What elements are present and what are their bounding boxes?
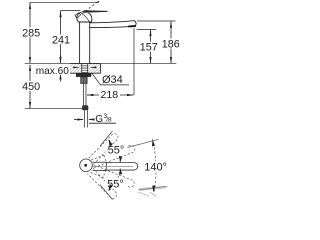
radial stop line lower (55deg direction)	[100, 185, 113, 200]
svg-text:285: 285	[22, 27, 40, 39]
dashed spout rotated down ~21deg	[90, 165, 135, 189]
dimension max.60	[59, 55, 61, 82]
svg-text:186: 186	[162, 39, 180, 51]
spout midline seam	[93, 165, 134, 167]
label 55 lower	[105, 178, 127, 189]
55 lower: arrow onto pill	[119, 168, 122, 174]
faint lower diagonals	[138, 192, 149, 196]
dimension 218	[86, 28, 134, 96]
dashed spout rotated up ~21deg	[91, 144, 136, 168]
dimension 241	[59, 11, 61, 64]
pivot circle	[80, 159, 93, 172]
svg-text:Ø34: Ø34	[102, 74, 123, 86]
arrowheads of angle dims	[108, 139, 155, 192]
spout outlet nub	[129, 25, 135, 27]
55 upper: arrow onto 46deg stop	[108, 139, 112, 146]
dome (cartridge cap)	[77, 12, 92, 22]
svg-text:/8: /8	[106, 116, 112, 123]
wire: extension line at lever top (241 ref)	[61, 10, 81, 12]
wire: hose-end reference line (450 ref)	[25, 108, 82, 110]
dimension G3/8	[74, 118, 116, 123]
hole diameter arrows inside counter	[73, 67, 96, 69]
label 55 upper	[106, 144, 128, 155]
dashed raised-lever indicator	[82, 2, 96, 14]
55 upper: arrow onto pill	[119, 156, 122, 162]
dimension 157	[137, 29, 157, 63]
140deg witness line lower (blurred band)	[139, 187, 167, 190]
lever tail flap	[75, 13, 81, 18]
svg-text:241: 241	[52, 34, 70, 46]
55deg arc lower	[109, 168, 120, 190]
svg-text:157: 157	[140, 42, 158, 54]
threaded shank through counter	[82, 64, 88, 74]
pivot dot	[84, 164, 87, 167]
svg-text:max.60: max.60	[36, 66, 69, 77]
140deg arc	[152, 139, 156, 194]
svg-text:G: G	[95, 114, 103, 125]
140 arrow lower	[152, 185, 155, 192]
svg-text:140°: 140°	[144, 162, 167, 174]
dimension 450	[29, 64, 31, 109]
label 140	[144, 161, 169, 172]
svg-text:55°: 55°	[108, 144, 125, 156]
countertop slab	[70, 64, 101, 74]
svg-text:450: 450	[22, 81, 40, 93]
threaded adapter below nut	[81, 77, 88, 84]
wire: countertop reference line extended both sides	[25, 63, 176, 65]
svg-text:55°: 55°	[107, 178, 124, 190]
G3/8 threaded nipple	[84, 110, 87, 127]
55 lower: arrow onto 46deg stop	[108, 184, 112, 191]
dashed short spout rotated down 46deg	[87, 168, 118, 200]
mounting nut below counter	[76, 74, 91, 77]
svg-text:218: 218	[101, 89, 119, 101]
dimension Ø34 label	[92, 74, 129, 85]
dashed short spout rotated up 46deg	[89, 132, 120, 164]
55deg arc upper	[109, 140, 120, 162]
radial stop line upper (55deg direction)	[100, 131, 113, 146]
dimension 186	[137, 21, 176, 64]
dimension 285	[29, 2, 31, 63]
hose end fitting	[82, 106, 88, 111]
140deg witness line upper	[128, 139, 159, 147]
solid spout (top view)	[93, 162, 138, 170]
lever handle blade	[83, 10, 107, 13]
flexible supply hose	[83, 84, 86, 106]
hatching of countertop	[70, 64, 101, 73]
140 arrow upper	[152, 140, 155, 147]
wire: extension line at top of raised lever (285 ref)	[30, 1, 99, 3]
spout arm	[90, 21, 136, 28]
faucet body	[80, 22, 90, 64]
